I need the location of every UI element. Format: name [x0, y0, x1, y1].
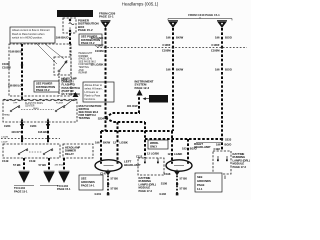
- svg-text:switch is in HEAD position.: switch is in HEAD position.: [12, 35, 43, 39]
- svg-text:57 BK: 57 BK: [13, 163, 21, 167]
- svg-text:G101: G101: [95, 192, 102, 196]
- dashed link between contacts: [21, 109, 54, 111]
- reference box: SEE GROUNDS PAGE 14-1 (right): [195, 173, 222, 192]
- svg-text:BG/O: BG/O: [225, 36, 232, 40]
- svg-text:W/O DRL: W/O DRL: [153, 97, 165, 101]
- svg-text:C100M: C100M: [1, 136, 8, 138]
- svg-text:C149: C149: [29, 159, 36, 163]
- wire: switch out left: [21, 122, 23, 144]
- svg-text:12: 12: [168, 152, 171, 156]
- text block: MULTI-FUNCTION SWITCH: [79, 104, 102, 120]
- svg-text:Flash to Pass function when: Flash to Pass function when: [12, 32, 45, 36]
- svg-text:TESTING: TESTING: [79, 116, 91, 120]
- label: LEFT HEADLAMP: [124, 160, 140, 167]
- node S234: [98, 116, 107, 120]
- svg-text:12 LG/BK: 12 LG/BK: [147, 152, 159, 156]
- node C100 on main feed: [95, 43, 107, 53]
- wire: HI feed to left headlamp: [117, 122, 119, 160]
- svg-text:C100F: C100F: [211, 43, 219, 47]
- DRL module right (dashed): [213, 151, 231, 179]
- svg-text:PAGE 14-1: PAGE 14-1: [81, 184, 95, 188]
- option tag: W/O DRL: [143, 95, 168, 103]
- svg-text:GROUNDS: GROUNDS: [197, 179, 211, 183]
- text: FLASH TO PASS: [25, 102, 43, 108]
- wire: relay contact to box bottom: [58, 73, 60, 96]
- switch contact right (FLASH): [55, 99, 75, 112]
- reference box: SEE GROUNDS PAGE 14-1 (left): [79, 175, 103, 190]
- svg-text:196: 196: [166, 68, 171, 72]
- svg-text:Headlamps (005.1): Headlamps (005.1): [122, 2, 159, 7]
- svg-text:ONLY: ONLY: [150, 145, 157, 149]
- svg-text:183: 183: [182, 146, 187, 150]
- svg-text:C198: C198: [164, 172, 171, 176]
- svg-text:REPAIR: REPAIR: [79, 72, 88, 75]
- svg-text:W/DRL: W/DRL: [150, 141, 159, 145]
- node S108: [161, 182, 178, 186]
- relay contact K1: [54, 57, 71, 75]
- wire: BK/W run to lamps: [101, 130, 172, 132]
- svg-text:C100M: C100M: [2, 66, 11, 70]
- label: DAYTIME RUNNING LAMPS (DRL) MODULE PAGE 17-2: [139, 176, 157, 193]
- connector line C100 (bulkhead): [97, 47, 247, 49]
- svg-text:C234: C234: [30, 124, 37, 128]
- svg-text:C100M: C100M: [95, 49, 104, 53]
- wire: fuse stub into relay: [69, 44, 71, 57]
- label: 196 BG/O (upper): [215, 36, 232, 40]
- ground arrow right lamp: [174, 171, 180, 175]
- label: 196 BG/O (run): [216, 142, 231, 146]
- wire: to ground A: [23, 158, 25, 171]
- svg-text:PASS: PASS: [33, 107, 39, 110]
- svg-text:BK/W: BK/W: [103, 141, 111, 145]
- label: 196 BK/W (upper): [166, 36, 184, 40]
- wire: main feed 12 LG/BK: [105, 28, 107, 131]
- svg-text:483 BK/W: 483 BK/W: [55, 164, 66, 166]
- svg-text:196 BK: 196 BK: [38, 130, 47, 134]
- svg-text:57 BK: 57 BK: [39, 163, 47, 167]
- svg-text:FLASH: FLASH: [56, 102, 63, 105]
- svg-text:SEE: SEE: [197, 175, 203, 179]
- svg-text:HEAD: HEAD: [4, 113, 10, 116]
- svg-text:BK/W: BK/W: [176, 68, 184, 72]
- power label box: HOT AT ALL TIMES: [57, 10, 93, 17]
- label: 196 BK/W (lower): [166, 68, 184, 72]
- node C100F/C100M (left): [2, 62, 23, 70]
- svg-text:196: 196: [215, 68, 220, 72]
- svg-text:HEADLAMP: HEADLAMP: [194, 145, 210, 149]
- label: INSTRUMENT SYSTEM PAGE 12-3: [135, 80, 154, 90]
- connector arrow left (BK/W feed): [168, 20, 178, 28]
- ground connector A: [19, 171, 30, 183]
- ground arrow left lamp: [105, 171, 111, 175]
- svg-text:57 BK: 57 BK: [180, 186, 188, 190]
- left headlamp: [95, 160, 122, 171]
- svg-text:select HI beam,: select HI beam,: [85, 87, 103, 91]
- svg-text:C100F: C100F: [1, 141, 8, 143]
- scalloped top edge of switch box: [3, 99, 77, 101]
- right headlamp: [166, 160, 192, 171]
- svg-text:LO beam or: LO beam or: [85, 90, 99, 94]
- svg-text:S233: S233: [225, 138, 232, 142]
- wire: fuse to relay box: [69, 33, 71, 44]
- arrow up from switch: [73, 92, 79, 97]
- svg-text:RELAY: RELAY: [65, 152, 74, 156]
- switch terminals: [21, 119, 49, 123]
- svg-text:FROM C240 PAGE 15-1: FROM C240 PAGE 15-1: [188, 13, 220, 17]
- svg-text:C100F: C100F: [2, 62, 10, 66]
- pointer lines from note: [36, 43, 64, 64]
- arrow up to instrument system: [136, 90, 142, 96]
- svg-text:PAGE 12-3: PAGE 12-3: [135, 86, 150, 90]
- wire: left lamp ground: [107, 176, 109, 196]
- svg-text:PAGE 15-1: PAGE 15-1: [57, 187, 71, 191]
- ground connector C: [59, 171, 70, 183]
- svg-text:416 R/Y: 416 R/Y: [11, 130, 21, 134]
- svg-text:196 BK/O: 196 BK/O: [10, 50, 22, 54]
- svg-text:SEE: SEE: [81, 176, 87, 180]
- relay box right (dashed): [63, 144, 93, 158]
- svg-text:C192: C192: [214, 147, 221, 151]
- svg-text:BK/W: BK/W: [176, 36, 184, 40]
- wire: drop to DRL module center: [144, 122, 146, 158]
- svg-text:Flash to Pass: Flash to Pass: [85, 94, 101, 98]
- svg-text:OFF: OFF: [13, 103, 18, 105]
- svg-text:TO G104: TO G104: [57, 184, 69, 188]
- label: TO G104 PAGE 15-1 (C): [57, 184, 71, 191]
- svg-text:BG/O: BG/O: [225, 142, 232, 146]
- connector marks below switch: [20, 124, 24, 128]
- svg-text:HOT AT ALL TIMES: HOT AT ALL TIMES: [61, 12, 88, 16]
- wire: left feed down: [21, 44, 23, 100]
- label: FROM C226 PAGE 15-1: [99, 12, 116, 19]
- wire: switch out right: [47, 122, 49, 144]
- label: 196 BG/O (lower): [215, 68, 232, 72]
- wire: to ground C: [63, 158, 65, 171]
- switch contact left (OFF/HEAD): [4, 103, 20, 117]
- wire: main feed over note box: [105, 81, 107, 103]
- label: 196 BK/W / 12 LG/BK (left lamp feeds): [95, 141, 128, 145]
- svg-text:PAGE 17-2: PAGE 17-2: [233, 165, 247, 169]
- svg-text:PAGE 17-2: PAGE 17-2: [139, 189, 153, 193]
- svg-text:PAGE 15-2: PAGE 15-2: [81, 41, 95, 45]
- wire: branch to instrument system: [106, 96, 140, 118]
- svg-text:S234: S234: [98, 116, 105, 120]
- svg-text:S108: S108: [161, 182, 168, 186]
- svg-text:GROUNDS: GROUNDS: [81, 180, 95, 184]
- svg-text:12 LG/BK: 12 LG/BK: [90, 36, 104, 40]
- svg-text:14-1: 14-1: [197, 187, 203, 191]
- node C100 on BK/W: [162, 43, 174, 53]
- svg-text:12 LG/BK: 12 LG/BK: [90, 63, 104, 67]
- reference box: SEE POWER DISTRIBUTION PAGE 15-2: [34, 81, 59, 92]
- label: RIGHT HEADLAMP: [194, 142, 210, 149]
- svg-text:FLASH TO PASS: FLASH TO PASS: [25, 102, 43, 105]
- connector line C100 (left): [1, 138, 60, 140]
- node labels C100M/C100F: [1, 136, 49, 143]
- svg-text:196: 196: [95, 141, 100, 145]
- relay box (dashed): [9, 44, 71, 96]
- label: POWER DISTRIBUTION BOX PAGE 15-2: [78, 19, 99, 32]
- svg-text:G102: G102: [159, 192, 166, 196]
- headlamp switch box (dashed): [3, 100, 77, 122]
- svg-text:57 BK: 57 BK: [180, 176, 188, 180]
- svg-text:196: 196: [216, 142, 221, 146]
- svg-text:57 BK: 57 BK: [111, 176, 119, 180]
- wire: LG/BK run to right: [145, 138, 222, 140]
- svg-text:C100F: C100F: [95, 43, 103, 47]
- svg-text:BG/O: BG/O: [225, 68, 232, 72]
- svg-text:C234: C234: [4, 124, 11, 128]
- text block: dimmer switch description: [62, 77, 81, 97]
- node S233: [196, 138, 232, 143]
- relay box lower-left (dashed): [3, 144, 60, 158]
- bracket under FROM C240: [168, 17, 232, 20]
- label: TO G104 PAGE 15-1 (A): [14, 186, 28, 193]
- svg-text:PAGE: PAGE: [197, 183, 205, 187]
- reference box: SEE POWER DISTRIBUTION PAGE 15-2 (upper): [79, 34, 102, 45]
- label: 12 LG/BK (right lamp): [168, 152, 183, 156]
- svg-text:PAGE 15-2: PAGE 15-2: [78, 28, 93, 32]
- option tag: W/DRL ONLY: [148, 140, 168, 149]
- note box: beam select note: [83, 82, 114, 102]
- ground G101: [95, 192, 110, 196]
- svg-text:LG/BK: LG/BK: [120, 141, 128, 145]
- svg-text:461 O/W: 461 O/W: [127, 104, 138, 108]
- label: 183 BG/O: [182, 146, 197, 150]
- ground connector B: [44, 171, 55, 183]
- svg-text:196 BK/LG: 196 BK/LG: [8, 84, 22, 88]
- svg-text:Allows driver to: Allows driver to: [85, 83, 103, 87]
- svg-text:PAGE 15-1: PAGE 15-1: [14, 190, 28, 194]
- wire: BG/O feed down: [221, 28, 223, 151]
- svg-text:PAGE 15-2: PAGE 15-2: [36, 88, 50, 92]
- wire: branch B to HI feeds: [106, 118, 146, 122]
- connector arrow right (BG/O feed): [217, 20, 227, 28]
- svg-text:196 BK/O: 196 BK/O: [56, 36, 70, 40]
- note box: dimmer note: [10, 27, 55, 43]
- svg-text:196: 196: [215, 36, 220, 40]
- svg-text:TO G104: TO G104: [14, 186, 26, 190]
- label: DAYTIME RUNNING LAMPS (DRL) MODULE PAGE 17-2: [233, 152, 251, 169]
- ground G102: [159, 192, 178, 196]
- svg-text:C100M: C100M: [162, 49, 171, 53]
- wire: LO feed left headlamp: [100, 131, 102, 160]
- wire: LO feed right headlamp: [171, 131, 173, 160]
- svg-text:196: 196: [166, 36, 171, 40]
- node S148: [90, 182, 109, 186]
- wire: right lamp ground: [176, 176, 178, 196]
- text block: autolamp description: [79, 52, 97, 75]
- svg-text:C100M: C100M: [211, 49, 220, 53]
- node C100 on BG/O: [211, 43, 223, 53]
- connector arrow into main feed: [101, 20, 111, 28]
- svg-text:57 BK: 57 BK: [111, 186, 119, 190]
- svg-text:C149: C149: [2, 159, 9, 163]
- wire: HI feed right headlamp: [187, 139, 189, 160]
- svg-text:PAGE 15-1: PAGE 15-1: [99, 15, 114, 19]
- svg-text:C100F: C100F: [162, 43, 170, 47]
- DRL module center (dashed): [138, 158, 164, 175]
- fuse F1 (power distribution box): [63, 18, 76, 33]
- svg-text:functions.: functions.: [85, 97, 96, 101]
- svg-text:Allows current to flow in Dimm: Allows current to flow in Dimmer/: [12, 28, 50, 32]
- svg-text:LG/BK: LG/BK: [174, 152, 182, 156]
- wire: BK/W feed down: [172, 28, 174, 131]
- wire: to ground B: [48, 158, 50, 171]
- bracket under A/B: [14, 185, 58, 187]
- svg-text:12: 12: [113, 141, 116, 145]
